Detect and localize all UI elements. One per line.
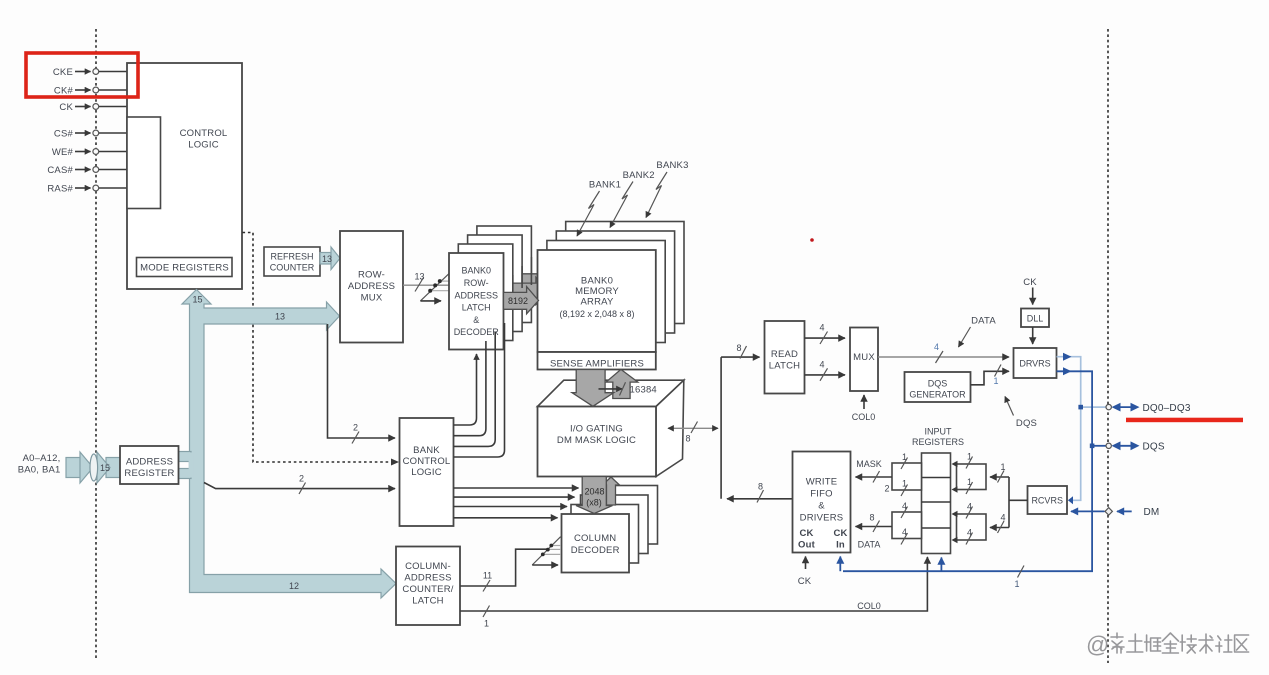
svg-text:@: @ [1086,632,1109,658]
command decode sub-block [127,117,161,209]
svg-text:BANK: BANK [413,445,440,456]
watermark [1086,632,1249,658]
svg-text:CS#: CS# [54,129,74,140]
svg-text:15: 15 [192,295,202,305]
wire read latch to mux, 4 (upper) [805,323,846,345]
svg-text:ARRAY: ARRAY [580,297,613,308]
wire mux to drvrs, 4 [878,342,1009,363]
svg-text:CK: CK [798,576,812,587]
column decoder 1 [571,505,639,564]
address register stubs to bus [178,452,192,462]
svg-text:COL0: COL0 [852,412,876,422]
svg-text:LATCH: LATCH [462,303,491,313]
svg-text:RCVRS: RCVRS [1031,496,1063,506]
svg-text:&: & [473,315,479,325]
label BANK3 with bolt arrow [646,160,689,218]
wire WE# [52,147,127,158]
right merge latch lower [952,502,987,545]
column decoder 2 [581,495,649,554]
svg-text:ADDRESS: ADDRESS [404,573,451,584]
svg-text:8: 8 [758,482,763,492]
svg-text:CK: CK [799,528,813,539]
svg-text:Out: Out [798,540,816,551]
svg-text:RAS#: RAS# [47,184,73,195]
svg-text:4: 4 [967,528,972,538]
svg-text:COLUMN: COLUMN [574,533,616,544]
svg-text:ADDRESS: ADDRESS [126,457,173,468]
label INPUT REGISTERS [912,427,964,448]
svg-text:CKE: CKE [53,67,73,78]
box RCVRS [1028,486,1068,514]
svg-text:BANK0: BANK0 [581,276,613,287]
left pad boundary dashed line [95,29,97,660]
red underline [1126,418,1243,423]
svg-text:DQS: DQS [1143,442,1165,453]
input registers stack [922,453,951,554]
bank3 memory array (back) [566,222,684,324]
wire read latch to mux, 4 (lower) [805,360,846,381]
svg-text:2: 2 [299,474,304,484]
wire dqs generator to drvrs, 1 [971,365,1010,387]
svg-text:MODE REGISTERS: MODE REGISTERS [140,263,229,274]
svg-text:COUNTER: COUNTER [270,263,315,273]
svg-text:I/O GATING: I/O GATING [570,424,623,435]
svg-text:WE#: WE# [52,147,74,158]
box COLUMN DECODER [562,514,630,573]
svg-text:2: 2 [353,423,358,433]
svg-text:8: 8 [685,434,690,444]
svg-text:11: 11 [483,571,492,581]
svg-text:13: 13 [322,254,332,264]
bank3 row latch (back) [477,226,532,323]
svg-text:CK: CK [59,102,73,113]
svg-text:REFRESH: REFRESH [270,252,313,262]
dark blue DQS line from drvrs [843,367,1106,571]
data path vertical wire [720,357,722,499]
svg-text:FIFO: FIFO [810,489,832,500]
16384 label and pointer [599,382,657,395]
svg-text:DATA: DATA [971,316,996,327]
svg-text:4: 4 [819,323,824,333]
box BANK0 ROW-ADDRESS LATCH & DECODER [449,253,504,350]
svg-text:2: 2 [884,484,889,494]
svg-text:4: 4 [1000,513,1005,523]
svg-text:16384: 16384 [630,385,657,396]
svg-text:4: 4 [819,360,824,370]
svg-text:BANK3: BANK3 [656,160,688,171]
svg-text:1: 1 [484,619,489,629]
svg-text:13: 13 [414,272,424,282]
svg-text:In: In [836,540,845,551]
svg-text:8192: 8192 [508,296,528,306]
svg-text:CAS#: CAS# [47,165,73,176]
svg-text:BANK2: BANK2 [623,170,655,181]
wire address bus to bank control, 2 [204,474,395,495]
wire CK to DLL [1032,288,1034,305]
svg-text:ROW-: ROW- [358,270,385,281]
right pad boundary dashed line [1107,29,1109,663]
svg-text:MUX: MUX [853,352,875,363]
latch stack edge restrokes [513,257,532,292]
svg-text:DRIVERS: DRIVERS [800,513,844,524]
svg-text:DM: DM [1144,507,1160,518]
label BANK1 with bolt arrow [577,180,621,237]
wire to read latch, 8 [721,343,759,359]
dashed control path to bank control logic [243,233,393,463]
svg-text:1: 1 [902,452,907,462]
svg-text:GENERATOR: GENERATOR [909,390,966,400]
svg-text:13: 13 [275,312,285,322]
svg-text:CONTROL: CONTROL [403,456,451,467]
svg-text:CONTROL: CONTROL [180,128,228,139]
svg-text:DQ0–DQ3: DQ0–DQ3 [1143,403,1191,414]
box BANK CONTROL LOGIC [400,418,454,526]
label DQS with pointer [1005,397,1037,430]
2048 up arrow [603,477,620,505]
svg-text:DQS: DQS [1016,418,1037,429]
svg-text:COUNTER/: COUNTER/ [402,584,453,595]
16384 down arrow [572,370,614,407]
svg-text:DM MASK LOGIC: DM MASK LOGIC [557,435,636,446]
svg-text:CK: CK [1023,277,1037,288]
svg-text:8: 8 [736,343,741,353]
pad DQS [1106,441,1165,452]
svg-text:CK: CK [833,528,847,539]
fan-out to column decoder stack [532,537,561,565]
wire I/O gating to data path, 8 (double arrow) [668,422,718,444]
svg-text:CK#: CK# [54,86,74,97]
svg-text:LOGIC: LOGIC [411,467,442,478]
svg-text:BA0, BA1: BA0, BA1 [18,465,61,476]
svg-text:MUX: MUX [361,293,383,304]
wire CS# [54,129,127,140]
svg-text:BANK1: BANK1 [589,180,621,191]
fan-out to bank row latches [420,273,449,301]
8192 block arrow [504,287,539,314]
svg-text:DQS: DQS [928,379,948,389]
wire row mux to bank control, 2 [328,324,396,444]
red dot artifact [810,238,814,242]
svg-text:ADDRESS: ADDRESS [348,281,395,292]
box DRVRS [1014,348,1057,378]
svg-text:1: 1 [902,479,907,489]
svg-text:BANK0: BANK0 [461,266,491,276]
wire CKE [53,67,127,78]
svg-text:WRITE: WRITE [806,477,838,488]
wires bank control to row latch stack [454,323,505,457]
svg-text:1: 1 [1014,579,1019,589]
svg-text:2048: 2048 [584,487,604,497]
svg-text:12: 12 [289,581,299,591]
svg-text:&: & [818,501,825,512]
svg-text:DLL: DLL [1027,314,1044,324]
right merge latch upper [952,452,987,495]
svg-text:ROW-: ROW- [464,278,489,288]
box COLUMN-ADDRESS COUNTER/LATCH [396,547,460,626]
bar SENSE AMPLIFIERS [538,352,656,370]
svg-text:REGISTERS: REGISTERS [912,437,964,447]
svg-text:1: 1 [967,477,972,487]
pad DM [1071,507,1159,518]
svg-text:DATA: DATA [858,540,881,550]
box BANK0 MEMORY ARRAY [538,250,656,352]
svg-text:LATCH: LATCH [412,596,443,607]
column decoder 3 (back) [590,486,658,545]
svg-text:4: 4 [902,527,907,537]
svg-text:DECODER: DECODER [454,327,500,337]
blue CK In risers [840,557,1024,590]
wire MASK, 2 [856,459,893,494]
svg-text:SENSE AMPLIFIERS: SENSE AMPLIFIERS [550,359,644,370]
8192 bus arrow shadows [513,268,557,305]
box DQS GENERATOR [905,372,971,402]
box ROW-ADDRESS MUX [340,231,403,343]
light blue DQ line from drvrs [1057,353,1106,505]
bank1 memory array [547,241,665,343]
svg-text:MEMORY: MEMORY [575,286,619,297]
red highlight box around CKE / CK# [26,53,138,97]
svg-text:LOGIC: LOGIC [188,140,219,151]
input bus A0-A12 BA0 BA1 with pad [66,452,121,483]
pad DQ0-DQ3 [1106,403,1191,414]
refresh counter to row mux teal arrow, label 13 [320,247,340,270]
svg-text:DRVRS: DRVRS [1019,359,1050,369]
box CONTROL LOGIC [127,63,242,289]
svg-text:A0–A12,: A0–A12, [23,453,61,464]
svg-text:4: 4 [934,342,939,352]
svg-text:REGISTER: REGISTER [124,468,174,479]
wire COL0 from counter to input registers [460,557,927,629]
wire DATA, 8 [856,513,893,550]
svg-text:COL0: COL0 [857,601,881,611]
svg-text:15: 15 [100,463,110,473]
label BANK2 with bolt arrow [610,170,655,228]
wires rcvrs to right latches, 1 and 4 [990,462,1028,533]
left merge latch lower [892,501,922,545]
16384 up arrow [606,369,638,398]
bank2 memory array [556,231,674,333]
wire CK into fifo [798,557,812,588]
address bus (teal): 15 up-arrow, vertical bus, 13 branch, 12 branch [182,290,396,599]
svg-text:INPUT: INPUT [925,427,953,437]
bank2 row latch [468,235,522,332]
wires bank control to column decoder stack [454,488,579,518]
wire CAS# [47,165,127,176]
wire write fifo to data path, 8 [727,482,793,503]
svg-text:1: 1 [993,376,998,386]
svg-text:1: 1 [967,452,972,462]
svg-text:LATCH: LATCH [769,361,800,372]
wire counter to column decoder, 11 [460,549,547,591]
wire row mux to latch stack, 13 [403,272,450,292]
svg-text:MASK: MASK [856,459,882,469]
box REFRESH COUNTER [264,247,320,276]
svg-text:(8,192 x 2,048 x 8): (8,192 x 2,048 x 8) [559,309,634,319]
box MUX [850,328,878,392]
box MODE REGISTERS [137,258,233,277]
box DLL [1021,309,1049,328]
svg-text:8: 8 [869,513,874,523]
wire CK [59,102,127,113]
svg-text:1: 1 [1000,462,1005,472]
left merge latch upper [892,452,922,496]
box I/O GATING DM MASK LOGIC (3D) [538,380,684,476]
svg-text:4: 4 [967,502,972,512]
wire DLL to DRVRS [1032,327,1034,344]
box WRITE FIFO & DRIVERS [793,452,851,553]
box READ LATCH [765,321,805,394]
2048 (x8) block arrow [576,477,613,514]
svg-text:4: 4 [902,501,907,511]
wire CK# [54,86,127,97]
svg-text:ADDRESS: ADDRESS [454,291,498,301]
svg-text:COLUMN-: COLUMN- [405,561,451,572]
wire RAS# [47,184,127,195]
svg-text:READ: READ [771,349,798,360]
label DATA with pointer [959,316,997,348]
wire COL0 stub into mux [852,395,876,422]
box ADDRESS REGISTER [120,446,179,484]
svg-text:DECODER: DECODER [571,545,620,556]
bank1 row latch [458,244,513,341]
svg-text:(x8): (x8) [586,498,602,508]
